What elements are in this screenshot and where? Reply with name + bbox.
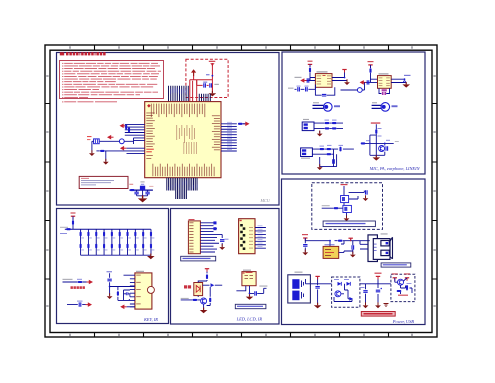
notes box — [60, 61, 164, 99]
U2 label — [317, 71, 328, 72]
MCU U1 body — [145, 102, 221, 178]
power flag — [342, 70, 346, 73]
key switch S9 — [142, 244, 144, 249]
DS1 pin names right — [249, 226, 253, 229]
wire — [105, 151, 127, 161]
power flag — [393, 278, 397, 281]
power flag — [71, 216, 75, 219]
frame zone tick marks — [45, 45, 437, 337]
labels above caps — [297, 86, 301, 87]
capacitor C22 violet — [382, 92, 385, 95]
MCU top pin names — [150, 104, 153, 118]
frame zone labels — [69, 46, 71, 48]
wire — [72, 225, 74, 229]
ground — [350, 252, 356, 258]
wire loop under U2 — [315, 85, 334, 96]
ground — [363, 302, 369, 308]
notes text lines — [62, 63, 63, 64]
ground — [317, 131, 323, 137]
ground — [89, 150, 95, 156]
junction — [369, 143, 371, 145]
switch label box — [323, 221, 375, 227]
diode D4 — [347, 282, 351, 286]
ground wide — [402, 82, 410, 88]
J7 pins — [200, 223, 222, 252]
wire — [339, 251, 353, 254]
key resistor R35 — [103, 232, 105, 237]
wire — [207, 84, 209, 86]
resistor R20 — [369, 68, 371, 73]
ground — [363, 195, 369, 201]
resistor R6 — [238, 123, 243, 125]
block border: LED/LCD section — [171, 209, 280, 325]
MCU right pin names — [212, 114, 220, 117]
block border: key/IR section — [57, 209, 169, 324]
wire — [197, 80, 213, 86]
ground — [302, 249, 308, 255]
connector arrow J2 — [107, 135, 114, 140]
crystal bus wire — [129, 189, 153, 191]
U4 pin names — [136, 274, 141, 277]
red CJK label — [71, 286, 73, 289]
resistor R14 — [332, 127, 337, 129]
resistor R12 — [332, 122, 337, 124]
MCU left pins — [125, 124, 145, 153]
wire — [395, 278, 412, 294]
MCU logo diamond — [147, 104, 151, 108]
block border: power/USB section — [282, 179, 426, 325]
U6 wires — [236, 286, 266, 294]
capacitor C50 — [366, 190, 368, 194]
ground — [317, 164, 323, 170]
capacitor C14 — [333, 159, 335, 163]
resistor R53 — [193, 299, 198, 301]
USB pin slot 1 — [381, 241, 389, 246]
power flag — [368, 65, 372, 68]
base wire — [181, 287, 211, 309]
junction — [404, 78, 406, 80]
DS1 mark — [240, 220, 242, 221]
bottom pin labels — [168, 187, 169, 191]
mic ref — [372, 102, 377, 103]
resistor R10 — [309, 68, 311, 73]
red CJK IR label — [184, 285, 187, 288]
IR LED D1 — [194, 283, 203, 296]
mic plates — [372, 105, 381, 108]
LCD label box — [181, 256, 216, 261]
key resistor R39 — [134, 232, 136, 237]
capacitor C54 — [363, 291, 367, 293]
usb label text — [383, 264, 407, 265]
connector arrow — [87, 280, 94, 285]
resistor R63 — [397, 290, 402, 292]
wire — [341, 82, 365, 90]
capacitor C32 — [126, 292, 128, 295]
U7 label — [325, 244, 335, 245]
label — [361, 287, 365, 288]
junction — [384, 143, 386, 145]
LED display DS1 — [239, 219, 255, 254]
USB flare — [390, 237, 393, 259]
resistor R11 — [325, 122, 330, 124]
wire — [312, 149, 354, 167]
EAR_VDD red label — [371, 122, 381, 123]
key switch S2 — [87, 244, 89, 249]
aux label box — [235, 304, 266, 308]
diode D5 — [349, 297, 353, 301]
amplifier U3 — [378, 76, 392, 89]
transistor Q5 — [335, 291, 341, 297]
capacitor C21 — [404, 81, 406, 83]
label — [404, 75, 411, 76]
LED segments — [240, 224, 243, 227]
resistor R13 — [325, 127, 330, 129]
DS1 pins — [255, 228, 266, 249]
key switch S4 — [103, 244, 105, 249]
resistor R15 — [320, 148, 325, 150]
labels — [378, 128, 382, 129]
label C value — [206, 74, 210, 75]
capacitor C2 — [210, 83, 212, 87]
ground — [344, 79, 350, 85]
lower wire — [67, 304, 86, 306]
key switch S7 — [126, 244, 128, 249]
MCU left red pin names — [146, 149, 154, 150]
J7 pin names — [189, 221, 193, 224]
switch label text — [326, 223, 366, 224]
label AUX — [259, 286, 267, 287]
charge dashed box — [332, 277, 360, 307]
resistor R4 — [128, 128, 130, 133]
wire — [305, 238, 370, 252]
capacitor C1 — [204, 83, 206, 87]
U7 texts — [325, 248, 331, 251]
LCD label text — [183, 258, 211, 259]
microphone MK2 — [381, 103, 390, 112]
capacitor C51 — [303, 245, 307, 247]
amplifier U2 — [315, 74, 332, 88]
BT1 label — [295, 272, 303, 273]
resistor R3 — [125, 125, 127, 130]
warning label box — [361, 312, 395, 317]
mic label — [334, 105, 340, 107]
junction — [109, 286, 111, 288]
regulator U7 — [323, 246, 339, 258]
pin net labels — [170, 89, 171, 94]
sheet inner border frame — [50, 50, 432, 332]
connector arrow MIC in — [300, 78, 307, 83]
label — [301, 158, 310, 159]
wire — [72, 216, 74, 220]
key resistor R36 — [111, 232, 113, 237]
ground — [147, 254, 155, 260]
power flag — [349, 238, 353, 241]
capacitor C5 — [134, 192, 138, 194]
wire — [370, 65, 372, 68]
key resistor R41 — [150, 232, 152, 237]
power flag arrow down — [210, 63, 214, 66]
connector arrow — [86, 302, 93, 307]
resistor R5 — [100, 150, 105, 152]
ground wide — [246, 294, 254, 300]
red charge label — [398, 295, 408, 296]
labels — [225, 239, 229, 240]
resistor R52 — [206, 274, 208, 279]
capacitor C10 — [307, 78, 309, 82]
LCD connector J7 — [188, 221, 200, 254]
wire — [96, 150, 99, 152]
label VCC — [107, 271, 113, 272]
wire — [100, 138, 134, 144]
power-switch dashed box — [312, 183, 383, 230]
crystal Y2 — [140, 186, 145, 191]
red pin label — [87, 136, 92, 137]
resistor R51 — [213, 227, 216, 230]
mic ref label — [313, 102, 319, 103]
key resistor R34 — [95, 232, 97, 237]
diode D2 — [211, 283, 215, 287]
ground — [200, 308, 208, 314]
capacitor C55 polarized — [376, 290, 380, 292]
power net label VCC — [209, 61, 216, 62]
wire — [243, 123, 246, 125]
MCU inner mid labels — [175, 125, 178, 140]
DS1 pin labels — [258, 224, 263, 227]
wire — [309, 64, 311, 67]
aux IC U6 — [242, 272, 256, 286]
sheet outer border frame — [45, 45, 437, 337]
connector arrow left — [120, 305, 127, 310]
wire — [314, 123, 343, 133]
key resistor R40 — [142, 232, 144, 237]
capacitor C31 — [107, 279, 111, 281]
capacitor C30 — [79, 302, 81, 306]
resistor R62 — [406, 285, 408, 290]
key switch S8 — [134, 244, 136, 249]
decoupling dashed box — [186, 59, 228, 97]
J8 pins — [360, 241, 368, 249]
labels — [334, 279, 339, 280]
MCU right pins — [221, 124, 237, 151]
junction — [249, 293, 251, 295]
capacitor C23 — [386, 146, 388, 150]
capacitor C20 — [367, 80, 369, 84]
key switch S6 — [119, 244, 121, 249]
USB connector J8 shell — [368, 235, 377, 262]
label — [77, 301, 83, 302]
notes text line below box — [62, 101, 63, 102]
U3 pin texts — [379, 77, 383, 80]
battery holder BT1 — [288, 275, 311, 303]
battery cells — [292, 279, 299, 289]
crystal X1 — [94, 139, 100, 144]
ground — [314, 303, 322, 309]
block border: audio section — [282, 52, 425, 174]
wire — [364, 73, 377, 82]
capacitor C13 — [306, 87, 308, 91]
charger dashed box — [391, 274, 415, 301]
label — [407, 282, 412, 285]
wire — [198, 269, 222, 286]
ground in dashed box — [209, 91, 217, 97]
key resistor R38 — [126, 232, 128, 237]
U4 label — [136, 271, 144, 272]
key resistor R33 — [87, 232, 89, 237]
transistor Q3 box — [341, 196, 349, 203]
resistor R17 — [339, 147, 341, 152]
key switch S10 — [150, 244, 152, 249]
ground — [219, 244, 225, 250]
transistor Q2 — [201, 298, 207, 304]
U6 texts — [245, 274, 249, 277]
resistor R16 — [327, 148, 332, 150]
MCU bottom pins — [167, 178, 197, 199]
capacitor C6 — [145, 192, 149, 194]
key switch S3 — [95, 244, 97, 249]
wire — [332, 72, 347, 82]
wire loop under U3 — [379, 88, 390, 93]
connector arrow J4 — [243, 122, 250, 127]
label — [322, 205, 330, 206]
transistor Q4 box — [343, 205, 352, 212]
label — [63, 279, 73, 280]
usb label box — [381, 263, 411, 267]
key resistor R37 — [119, 232, 121, 237]
resistor R42 — [78, 281, 83, 283]
ground — [103, 159, 109, 165]
IR RX wire — [63, 281, 87, 283]
wire right of U3 — [391, 79, 406, 84]
wire — [365, 124, 394, 157]
chassis ground — [384, 304, 389, 307]
transistor Q6 — [398, 279, 404, 285]
wire battery bus — [306, 277, 391, 305]
key switch S1 — [80, 244, 82, 249]
connector arrow — [360, 80, 367, 85]
earphone jack J5 — [302, 122, 314, 131]
U2 pin texts — [317, 75, 322, 78]
resistor R54 — [209, 298, 211, 303]
label — [288, 88, 294, 89]
U4 pins — [124, 275, 135, 307]
ground wide — [373, 155, 381, 161]
MCU left pin names — [146, 112, 155, 115]
capacitor label — [203, 82, 207, 83]
IR lens — [147, 286, 154, 293]
test pin note lines — [81, 177, 89, 180]
svg-text:MCU: MCU — [260, 198, 271, 203]
bus labels — [60, 227, 68, 228]
capacitor C11 — [322, 94, 326, 96]
resistor R31 — [66, 228, 71, 230]
capacitor C52 — [352, 245, 354, 249]
red flag label — [341, 184, 348, 185]
test pin note box — [79, 176, 128, 188]
oscillator Y1 — [119, 139, 124, 144]
resistor R61 — [338, 240, 343, 242]
label — [295, 77, 302, 78]
resistor R50 — [213, 221, 216, 224]
ground — [344, 215, 350, 221]
resistor R21 — [375, 129, 377, 134]
wire — [92, 141, 94, 152]
wire — [110, 287, 135, 301]
power arrow symbol — [191, 69, 196, 76]
wire — [305, 72, 316, 80]
J8 pin labels — [374, 244, 377, 245]
labels — [325, 120, 330, 121]
capacitor C40 — [220, 240, 224, 242]
diode D3 — [338, 282, 342, 286]
microphone MK1 — [324, 103, 333, 112]
junction — [344, 77, 346, 79]
junction node — [212, 75, 214, 77]
capacitor C12 — [298, 87, 300, 91]
resistor R22 — [361, 142, 366, 144]
IR receiver U4 — [135, 273, 152, 309]
wire — [109, 273, 111, 295]
wire — [322, 186, 365, 218]
MCU bottom pin names — [152, 164, 155, 177]
wire red feed — [190, 76, 197, 102]
aux label text — [237, 306, 263, 307]
labels — [140, 181, 144, 182]
USB connector J8 body — [373, 239, 390, 260]
line-in jack J6 — [301, 148, 313, 157]
capacitor C53 — [315, 287, 319, 289]
power flag — [308, 64, 312, 67]
connector arrow J1 — [120, 124, 127, 129]
wire — [137, 190, 148, 198]
ground — [375, 302, 381, 308]
MCU top pins — [169, 86, 211, 102]
J7 label — [189, 219, 195, 220]
resistor R18 — [327, 153, 332, 155]
U6 mark — [243, 272, 245, 273]
connector arrow J3 — [120, 146, 127, 151]
wire — [295, 87, 316, 89]
key resistor R32 — [80, 232, 82, 237]
USB pin slot 2 — [381, 250, 389, 255]
resistor R43 — [117, 291, 119, 296]
label — [303, 119, 309, 120]
wire — [334, 284, 352, 302]
transistor Q1 — [379, 146, 385, 152]
resistor R7 — [130, 189, 135, 191]
warning text — [364, 313, 393, 315]
jack circle — [357, 88, 362, 93]
power flag — [315, 276, 319, 279]
resistor R30 — [72, 220, 74, 225]
U6 label — [243, 270, 251, 271]
block border: MCU section — [57, 53, 280, 206]
U3 label — [379, 73, 389, 74]
notes title text — [60, 52, 64, 55]
J8 label — [381, 233, 388, 234]
ground wide — [138, 195, 148, 202]
junction — [329, 240, 331, 242]
label IR_TX — [181, 298, 189, 299]
key switch S5 — [111, 244, 113, 249]
key matrix bus — [65, 228, 151, 230]
mic plates — [313, 105, 324, 108]
resistor R60 — [334, 207, 339, 209]
power flag — [376, 276, 380, 279]
labels — [320, 146, 325, 147]
wire — [211, 85, 213, 90]
key columns wires — [81, 229, 151, 255]
power flag — [405, 278, 409, 281]
